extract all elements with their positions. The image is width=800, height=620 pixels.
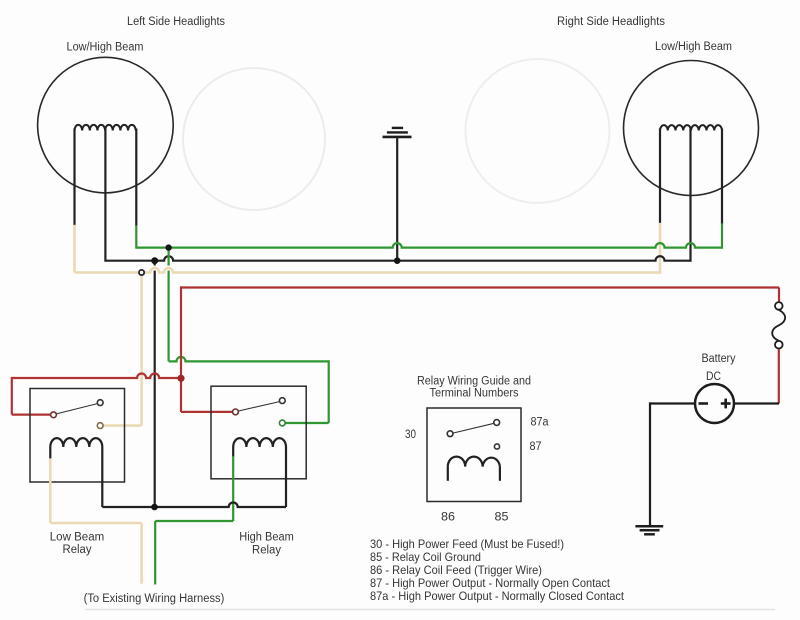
svg-text:30: 30: [405, 429, 416, 441]
svg-text:DC: DC: [706, 371, 721, 383]
svg-text:Left Side Headlights: Left Side Headlights: [127, 16, 225, 28]
svg-text:Right Side Headlights: Right Side Headlights: [557, 16, 665, 28]
svg-text:87a - High Power Output - Norm: 87a - High Power Output - Normally Close…: [370, 589, 625, 603]
svg-text:(To Existing Wiring Harness): (To Existing Wiring Harness): [84, 593, 225, 605]
svg-text:Relay: Relay: [252, 545, 281, 557]
svg-text:85 - Relay Coil Ground: 85 - Relay Coil Ground: [370, 550, 481, 564]
svg-text:Low Beam: Low Beam: [50, 532, 105, 544]
svg-text:87a: 87a: [531, 417, 550, 429]
svg-text:Battery: Battery: [702, 353, 736, 365]
svg-text:Relay: Relay: [63, 544, 92, 556]
svg-text:Low/High Beam: Low/High Beam: [655, 41, 732, 53]
svg-text:Relay Wiring Guide and: Relay Wiring Guide and: [417, 376, 531, 388]
svg-text:87: 87: [530, 441, 542, 453]
svg-text:87 - High Power Output - Norma: 87 - High Power Output - Normally Open C…: [370, 576, 611, 590]
svg-text:86 - Relay Coil Feed (Trigger: 86 - Relay Coil Feed (Trigger Wire): [370, 563, 542, 577]
svg-text:30 - High Power Feed (Must be: 30 - High Power Feed (Must be Fused!): [370, 537, 564, 551]
svg-text:Terminal Numbers: Terminal Numbers: [430, 388, 519, 400]
svg-text:High Beam: High Beam: [239, 532, 294, 544]
svg-text:86: 86: [441, 512, 455, 524]
svg-text:Low/High Beam: Low/High Beam: [67, 42, 144, 54]
svg-text:85: 85: [495, 512, 509, 524]
